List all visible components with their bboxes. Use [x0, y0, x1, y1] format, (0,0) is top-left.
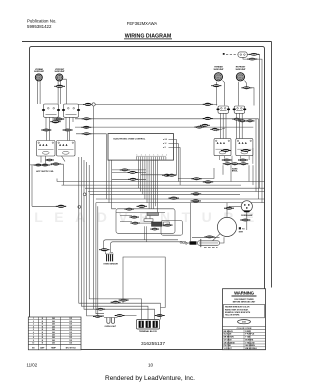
oven light fuse loops	[107, 318, 115, 324]
svg-text:PK PINK: PK PINK	[224, 345, 232, 347]
wire RF lead 3	[250, 88, 254, 106]
svg-text:2: 2	[33, 321, 34, 323]
wire label A1	[120, 169, 130, 172]
footer credit	[105, 375, 195, 382]
label: RR surface unit	[236, 67, 247, 71]
svg-text:WARNING: WARNING	[234, 291, 255, 296]
outer right border	[271, 42, 273, 288]
svg-text:125: 125	[69, 343, 72, 345]
wire EOC t7	[150, 160, 152, 209]
wire sw1 out c	[52, 117, 54, 122]
svg-text:125: 125	[69, 321, 72, 323]
wire label sw mid 1	[50, 120, 60, 123]
wire label busG	[169, 197, 179, 200]
wire sw2 out b	[69, 117, 71, 140]
wire label cluster 6	[163, 224, 173, 227]
terminal block	[137, 320, 160, 330]
wire label bus3 mid	[210, 128, 219, 131]
wire label selR1	[221, 149, 231, 152]
wire element right	[220, 237, 225, 243]
svg-text:TERMINAL BLOCK: TERMINAL BLOCK	[139, 330, 158, 333]
wire label low 3	[96, 308, 105, 311]
trunk 4	[87, 162, 104, 316]
svg-text:125: 125	[69, 340, 72, 342]
bus 4 to EOC	[76, 134, 106, 199]
wire EOC t6	[148, 160, 150, 209]
svg-text:240: 240	[52, 342, 55, 345]
wire sw2 out a	[65, 117, 67, 129]
wire LF lead 3	[62, 79, 66, 104]
wire stub A1	[112, 169, 146, 171]
wire label swR2	[238, 120, 247, 123]
header: title WIRING DIAGRAM	[124, 34, 172, 40]
svg-text:YELLOW STRIPE.: YELLOW STRIPE.	[225, 315, 240, 317]
svg-text:HOT SUPPLY WL: HOT SUPPLY WL	[36, 171, 54, 173]
wire label lamp	[224, 207, 234, 210]
surface switch RR	[216, 106, 230, 113]
wire swR out b	[222, 113, 224, 138]
bus C	[62, 184, 242, 186]
wire label bus1 L	[83, 103, 93, 106]
svg-text:WB WHT/BLK: WB WHT/BLK	[245, 348, 257, 350]
label: switch note	[232, 167, 239, 172]
wire label bus4	[82, 132, 92, 135]
trunk R1	[222, 165, 224, 175]
wire label swR1	[232, 118, 241, 121]
svg-text:1: 1	[141, 154, 142, 156]
wire RR lead 1	[215, 82, 217, 106]
trunk 2	[81, 157, 137, 306]
svg-text:BR BROWN: BR BROWN	[224, 337, 235, 339]
svg-text:SURF.UNIT: SURF.UNIT	[34, 71, 45, 73]
svg-text:BEFORE SERVICING UNIT: BEFORE SERVICING UNIT	[233, 301, 256, 303]
wire label door sw 1	[249, 53, 259, 56]
wire sel A down	[40, 156, 42, 163]
wire EOC t8	[152, 160, 154, 209]
svg-text:OR ORANGE: OR ORANGE	[224, 341, 236, 344]
wire to element connector	[190, 203, 192, 242]
wire lamp left	[229, 205, 241, 207]
bus 3	[75, 126, 253, 128]
wire RF lead 2	[245, 81, 247, 88]
drawing number	[141, 341, 165, 347]
junction J1	[92, 103, 95, 106]
wire motor to element	[207, 234, 220, 242]
svg-text:EXAMPLE: SPACE NOW WITH: EXAMPLE: SPACE NOW WITH	[225, 311, 251, 314]
wire label selR2	[241, 149, 251, 152]
surface selector switch L1	[37, 141, 56, 157]
diagram frame	[30, 47, 265, 350]
svg-text:5: 5	[33, 329, 34, 331]
oven door switch	[238, 52, 247, 57]
oven lamp	[241, 201, 252, 213]
svg-text:240: 240	[52, 328, 55, 331]
convection motor	[217, 217, 236, 236]
wire EOC t3	[142, 160, 144, 195]
wire swR2 out b	[238, 113, 240, 138]
wire EOC t1	[138, 160, 140, 189]
svg-text:1: 1	[145, 154, 146, 156]
label: RF surface unit	[214, 66, 225, 71]
wire left drop 3	[98, 206, 104, 316]
wire label bus3 R2	[200, 124, 210, 127]
wire label LF	[54, 85, 65, 88]
wire EOC t9	[154, 160, 156, 207]
wire label selR6	[230, 162, 240, 165]
wire label supply 2	[40, 164, 50, 167]
wire to sel B	[67, 131, 69, 140]
wire label sw mid 2	[54, 118, 64, 121]
svg-text:1: 1	[153, 154, 154, 156]
wire label sw low 2	[63, 129, 73, 132]
wire sel A down2	[45, 156, 47, 164]
trunk 3	[84, 160, 116, 309]
svg-text:240: 240	[52, 333, 55, 336]
svg-text:125: 125	[69, 332, 72, 334]
svg-text:GN GREEN: GN GREEN	[245, 345, 255, 347]
svg-text:BTU STYLE: BTU STYLE	[66, 347, 77, 349]
svg-text:1: 1	[33, 318, 34, 320]
wire label A2	[128, 171, 138, 174]
wire sw2 out c	[72, 117, 74, 122]
trunk R3	[255, 119, 257, 192]
wire swR2 out c	[241, 113, 243, 138]
wire label bake riser	[191, 177, 201, 180]
svg-text:Publication No.: Publication No.	[27, 19, 57, 24]
wire label busH	[191, 199, 201, 202]
wire label busE	[191, 192, 201, 195]
wire stub A2	[112, 171, 146, 173]
wire label busI	[56, 205, 66, 208]
label: oven sensor	[103, 264, 118, 266]
label: motor	[239, 227, 245, 233]
svg-text:V VIOLET: V VIOLET	[224, 348, 233, 350]
bus 1	[79, 103, 218, 105]
svg-text:7: 7	[33, 334, 34, 336]
wire EOC right 1	[169, 140, 177, 175]
wire LF lead 1	[57, 81, 59, 104]
wire label A3	[128, 178, 138, 181]
wire loop line 1	[104, 240, 179, 249]
wire cluster drops	[145, 226, 147, 242]
element dashed lead	[204, 247, 218, 249]
wires selR out	[220, 148, 253, 164]
revision date	[27, 363, 38, 368]
bus B	[57, 181, 265, 183]
wire label busA	[162, 174, 172, 177]
surface element RR	[206, 73, 230, 81]
oven sensor	[106, 254, 114, 261]
wire label supply 3	[51, 163, 61, 166]
svg-text:1: 1	[137, 154, 138, 156]
wire sel B down	[62, 156, 66, 162]
svg-text:1: 1	[149, 154, 150, 156]
wire label cluster 4	[130, 222, 140, 225]
wire LF lead 2	[60, 81, 62, 85]
junction J2	[78, 206, 81, 209]
label: terminal block	[139, 330, 158, 333]
surface switch RF	[62, 104, 80, 117]
wire LR lead 1	[37, 81, 39, 104]
svg-text:● W: ● W	[163, 143, 167, 145]
svg-text:5995381422: 5995381422	[27, 24, 52, 29]
bake element	[198, 239, 220, 247]
element plug rings	[180, 241, 187, 244]
wire RR lead 2	[223, 81, 225, 106]
wire label selR4	[238, 159, 248, 162]
wire supply to bus	[60, 164, 64, 185]
wire lamp down	[246, 212, 248, 230]
svg-text:SURF.UNIT: SURF.UNIT	[55, 71, 66, 73]
surface switch LF	[42, 104, 60, 117]
bus H	[96, 202, 265, 204]
svg-text:1: 1	[166, 154, 167, 156]
svg-text:MTR: MTR	[239, 231, 244, 233]
wire label bus L3	[81, 126, 91, 129]
wire label cluster 2	[124, 208, 134, 211]
wire EOC t10	[157, 160, 159, 213]
wire loop line 2	[111, 242, 187, 252]
svg-text:125: 125	[69, 326, 72, 328]
label: fuse	[105, 326, 117, 328]
wire swR2 out a	[236, 113, 238, 138]
wire low b	[137, 306, 148, 319]
wire door sw 1	[247, 54, 259, 188]
wire label bus3 R	[194, 126, 204, 129]
parts table	[28, 317, 81, 350]
svg-text:COLOR CODE: COLOR CODE	[237, 328, 252, 330]
wire label cluster 5	[150, 228, 159, 231]
label: LR surface unit	[55, 69, 66, 73]
wire supply in	[30, 164, 52, 166]
svg-text:SURF.UNIT: SURF.UNIT	[236, 69, 247, 71]
svg-text:10: 10	[148, 363, 154, 368]
svg-text:6: 6	[33, 332, 34, 334]
trunk R2	[248, 165, 250, 181]
oven selector switch R1	[214, 139, 231, 156]
surface element LR	[28, 74, 48, 81]
svg-text:125: 125	[69, 337, 72, 339]
splice	[223, 53, 225, 55]
svg-text:125: 125	[69, 318, 72, 320]
wire sw1 out b	[49, 117, 51, 140]
bus E	[88, 191, 265, 193]
wire label supply 1	[34, 164, 44, 167]
svg-text:SURF.UNIT: SURF.UNIT	[214, 69, 225, 71]
wire label bus2 R	[203, 117, 213, 120]
oven selector switch R2	[236, 139, 253, 156]
svg-text:OVEN SENSOR: OVEN SENSOR	[103, 264, 118, 266]
wire label door sw 2	[247, 58, 257, 61]
svg-text:316255137: 316255137	[141, 341, 165, 347]
sensor wires	[105, 251, 113, 254]
wire label busA2	[167, 174, 177, 177]
wire J1 drop	[93, 106, 95, 309]
relay K2	[152, 222, 163, 226]
wire EOC t5	[146, 160, 148, 203]
wire swR out c	[225, 113, 227, 138]
svg-text:1: 1	[162, 154, 163, 156]
svg-text:BL BLUE: BL BLUE	[224, 334, 233, 336]
wire low d	[123, 303, 161, 319]
svg-text:240: 240	[52, 320, 55, 323]
electronic oven control EOC	[108, 134, 174, 161]
svg-text:HEATER WIRE MUST COLOR: HEATER WIRE MUST COLOR	[225, 306, 250, 309]
wire sw1 out a	[45, 117, 47, 129]
relay K1	[144, 219, 153, 222]
label: LF surface unit	[34, 68, 45, 73]
wire label cluster 1	[137, 205, 147, 208]
svg-text:10: 10	[32, 343, 34, 345]
svg-text:OVEN LAMP: OVEN LAMP	[241, 214, 254, 217]
svg-text:240: 240	[52, 317, 55, 320]
label: hot supply wire	[36, 171, 54, 173]
wire label low 6	[155, 314, 165, 317]
svg-text:ELECTRONIC OVEN CONTROL: ELECTRONIC OVEN CONTROL	[114, 138, 146, 140]
wire label RR	[211, 84, 221, 87]
relay board enclosure	[116, 209, 175, 234]
svg-text:125: 125	[69, 329, 72, 331]
lock motor enclosure	[161, 221, 183, 236]
bus A	[141, 174, 177, 176]
svg-text:4: 4	[33, 325, 34, 328]
wire label lamp2	[240, 219, 250, 222]
svg-text:BROIL: BROIL	[232, 171, 239, 173]
trunk R2b	[252, 165, 254, 185]
wire left drop 2	[96, 203, 104, 314]
wire EOC t2	[140, 160, 142, 192]
wire dashed to door switch	[226, 53, 238, 55]
svg-text:FEF362MXAWA: FEF362MXAWA	[127, 21, 158, 26]
wire LF lead 2b	[60, 88, 62, 104]
lock switch	[164, 222, 170, 226]
wire LR lead 2	[39, 81, 41, 104]
svg-text:11/02: 11/02	[27, 363, 38, 368]
wire EOC right 2	[169, 144, 179, 182]
wire door sw 2	[243, 57, 262, 202]
svg-text:240: 240	[52, 323, 55, 326]
wire label low 4	[93, 315, 102, 318]
stub busB	[56, 179, 58, 182]
svg-text:8: 8	[33, 337, 34, 339]
svg-text:TEMP: TEMP	[51, 347, 57, 349]
wire EOC right 3	[169, 148, 181, 186]
cluster wiring	[120, 216, 153, 224]
header: publication number	[27, 19, 57, 29]
wire slant R	[216, 128, 225, 131]
warning box	[223, 289, 266, 350]
wire label RF	[241, 86, 251, 89]
wire label swR3	[246, 120, 255, 123]
wire label element	[204, 236, 214, 239]
wire label selR7	[239, 162, 249, 165]
surface element LF	[49, 74, 69, 81]
bus F	[90, 193, 240, 195]
wire stub A3	[112, 178, 146, 180]
wire low c	[116, 309, 155, 319]
wire label busB	[203, 180, 213, 183]
header: model number	[127, 21, 158, 26]
wire label bus1 R	[203, 103, 213, 106]
top rule	[22, 41, 272, 43]
wire swR out a	[220, 113, 222, 138]
svg-text:9: 9	[33, 340, 34, 342]
page number	[148, 363, 154, 368]
wire label low 5	[115, 314, 125, 317]
surface element RF	[228, 73, 252, 81]
element connector	[186, 241, 197, 244]
junction J3	[83, 193, 86, 196]
wire label low 2	[111, 301, 121, 304]
bus G	[96, 198, 265, 200]
wire label sw low 1	[41, 129, 51, 132]
bus I	[32, 205, 66, 207]
wire low e	[123, 315, 165, 317]
wire loop rect	[123, 257, 165, 308]
wire label sensor	[99, 248, 109, 251]
wire to sel A	[45, 131, 47, 140]
svg-text:GY GRAY: GY GRAY	[224, 338, 233, 341]
svg-text:240: 240	[52, 336, 55, 339]
svg-text:3: 3	[33, 324, 34, 326]
wire EOC left drop 2	[112, 160, 116, 209]
wire label low 1	[119, 299, 129, 302]
terminal strip	[116, 212, 165, 215]
wire bake riser	[178, 168, 214, 179]
wire label selR5	[223, 162, 233, 165]
svg-text:240: 240	[52, 325, 55, 328]
label: oven lamp	[241, 214, 254, 217]
svg-text:W WHITE: W WHITE	[245, 339, 254, 341]
trunk 1	[79, 157, 123, 303]
svg-text:● BK: ● BK	[163, 139, 168, 141]
bus 2	[75, 118, 259, 120]
trunk R4	[258, 119, 260, 199]
bus D	[85, 187, 265, 189]
wire EOC t4	[144, 160, 146, 199]
svg-text:RATED TEMP. STOVE HEAT.: RATED TEMP. STOVE HEAT.	[225, 308, 249, 311]
wire RF lead 1	[237, 82, 239, 106]
trunk 5	[89, 165, 120, 299]
svg-text:125: 125	[69, 334, 72, 336]
watermark	[34, 209, 266, 225]
svg-text:125: 125	[69, 324, 72, 326]
surface selector switch L2	[57, 141, 76, 157]
wire label sel out	[45, 159, 53, 161]
wire label cluster 3	[129, 216, 139, 219]
svg-text:1: 1	[158, 154, 159, 156]
svg-text:R RED: R RED	[245, 331, 251, 333]
wire supply drop	[31, 165, 33, 206]
wire element top	[192, 236, 220, 238]
svg-text:OVEN LIGHT: OVEN LIGHT	[105, 326, 117, 328]
wire label bus2 L	[82, 117, 92, 120]
wire motor top	[226, 203, 228, 218]
wire label selR3	[222, 159, 232, 162]
svg-text:Rendered by LeadVenture, Inc.: Rendered by LeadVenture, Inc.	[105, 375, 195, 382]
trunk R1b	[230, 165, 232, 181]
wire low a	[95, 299, 142, 320]
fuse bus	[104, 317, 118, 319]
surface switch RF	[233, 106, 247, 113]
svg-text:240: 240	[52, 339, 55, 342]
svg-text:3131: 3131	[242, 322, 246, 324]
wire EOC left drop 1	[108, 160, 110, 203]
svg-text:240: 240	[52, 331, 55, 334]
